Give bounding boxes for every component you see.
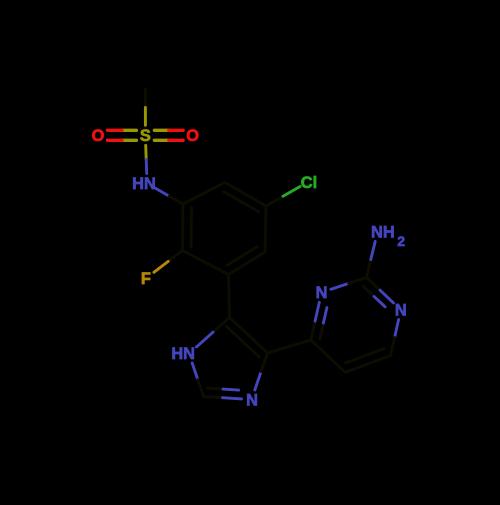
double bond S=O right <box>154 129 168 132</box>
imidazole bond N1i-C2i <box>192 363 198 380</box>
bond C5-imidazole <box>227 275 230 297</box>
svg-text:O: O <box>186 127 199 145</box>
svg-text:HN: HN <box>171 345 195 363</box>
svg-text:Cl: Cl <box>301 174 317 192</box>
imidazole bond C2i=N3i <box>204 397 223 398</box>
benzene bond C6=C1 <box>181 227 184 250</box>
benzene bond C5-C6 <box>206 263 229 275</box>
pyrimidine bond C6p=N1p <box>311 321 315 340</box>
bond C6-F <box>168 251 182 262</box>
pyrimidine bond N3p-C4p <box>395 320 399 338</box>
bond N-C1 <box>156 188 170 196</box>
double bond S=O left <box>122 129 136 132</box>
svg-text:N: N <box>246 391 258 409</box>
imidazole bond N3i-C4i <box>255 372 261 391</box>
pyrimidine bond C4p=C5p <box>368 356 391 364</box>
pyrimidine bond C5p-C6p <box>328 356 345 372</box>
bond CH3-S <box>144 90 147 108</box>
benzene bond C1-C2 <box>183 193 204 204</box>
benzene bond C2=C3 <box>225 183 246 195</box>
svg-text:HN: HN <box>132 175 156 193</box>
benzene bond C3-C4 <box>264 206 267 229</box>
bond imidazole-pyrimidine <box>268 347 290 354</box>
svg-text:N: N <box>316 284 328 302</box>
svg-text:S: S <box>140 127 151 145</box>
svg-text:O: O <box>92 127 105 145</box>
imidazole bond C5i-N1i <box>213 318 230 333</box>
imidazole bond C4i=C5i <box>249 335 268 353</box>
bond S-N <box>144 145 147 159</box>
bond C2p-NH2 <box>367 260 371 278</box>
pyrimidine bond N1p-C2p <box>331 283 349 289</box>
svg-text:F: F <box>141 270 151 288</box>
svg-text:N: N <box>395 302 407 320</box>
benzene bond C4=C5 <box>247 252 265 263</box>
bond C3-Cl <box>266 196 283 206</box>
pyrimidine bond C2p=N3p <box>367 278 381 291</box>
